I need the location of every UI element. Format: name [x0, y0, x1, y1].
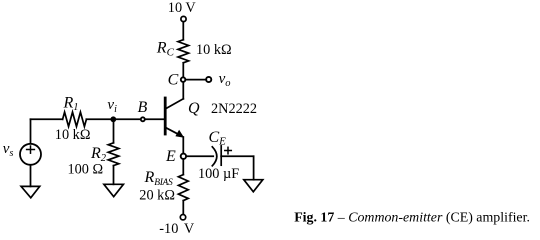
svg-text:R1: R1: [63, 94, 79, 113]
svg-text:10 V: 10 V: [168, 0, 197, 16]
svg-text:10 kΩ: 10 kΩ: [55, 127, 91, 143]
svg-text:10 kΩ: 10 kΩ: [196, 42, 232, 58]
svg-text:vs: vs: [3, 141, 14, 159]
svg-text:B: B: [138, 99, 148, 116]
svg-text:-10 V: -10 V: [159, 221, 195, 237]
svg-text:vi: vi: [107, 97, 117, 115]
svg-text:vo: vo: [219, 71, 231, 89]
svg-text:Fig. 17 – Common-emitter (CE): Fig. 17 – Common-emitter (CE) amplifier.: [294, 211, 530, 226]
svg-text:Q: Q: [188, 100, 200, 117]
svg-text:100 Ω: 100 Ω: [68, 161, 104, 177]
svg-text:RBIAS: RBIAS: [144, 169, 174, 188]
svg-text:2N2222: 2N2222: [211, 101, 257, 117]
svg-text:RC: RC: [156, 40, 175, 59]
svg-text:E: E: [165, 148, 176, 165]
svg-text:100 µF: 100 µF: [198, 166, 239, 182]
svg-text:C: C: [168, 71, 179, 88]
svg-text:CE: CE: [209, 129, 227, 148]
svg-text:20 kΩ: 20 kΩ: [139, 187, 175, 203]
